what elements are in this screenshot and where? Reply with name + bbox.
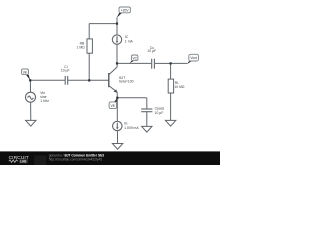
svg-text:10 µF: 10 µF	[155, 111, 164, 115]
current source IE	[113, 121, 122, 130]
resistor RB	[87, 39, 92, 53]
wire base right	[68, 79, 109, 81]
svg-text:10 MΩ: 10 MΩ	[174, 85, 185, 89]
resistor RB labels	[77, 42, 86, 50]
wire collector right	[155, 62, 171, 64]
junction collector node	[116, 62, 118, 64]
capacitor Ci labels	[61, 65, 70, 72]
ground under IE	[112, 144, 122, 150]
capacitor Co labels	[147, 46, 156, 53]
node VC flag	[130, 61, 134, 64]
ground under Vin	[26, 120, 36, 126]
wire to Vout	[171, 62, 188, 64]
svg-text:Vout: Vout	[190, 56, 196, 60]
ground under Cpass	[142, 126, 152, 132]
footer CircuitLab logo	[9, 155, 29, 164]
junction RL node	[170, 62, 172, 64]
wire RB bottom	[88, 53, 90, 80]
svg-text:10 µF: 10 µF	[147, 49, 156, 53]
capacitor Co	[152, 59, 155, 69]
wire IC top	[116, 18, 118, 35]
svg-text:Vin: Vin	[23, 70, 28, 74]
current source IC	[112, 35, 121, 44]
svg-text:VE: VE	[111, 104, 115, 108]
capacitor Cpass	[141, 109, 152, 112]
wire Vin top	[29, 80, 31, 92]
transistor Q1 BJT	[108, 73, 110, 87]
node Vin flag	[26, 75, 30, 81]
svg-text:LAB: LAB	[20, 160, 27, 164]
wire Cpass top	[146, 98, 148, 109]
junction at top rail	[116, 23, 118, 25]
node +20V flag	[117, 13, 123, 18]
svg-text:1 MΩ: 1 MΩ	[77, 46, 86, 50]
wire IE top	[116, 98, 118, 121]
resistor RL labels	[174, 81, 185, 89]
wire IE bottom	[116, 131, 118, 144]
current source IC labels	[125, 35, 134, 43]
ground under RL	[165, 120, 175, 126]
svg-text:http://circuitlab.com/c/mk4cd4: http://circuitlab.com/c/mk4cd4452fy45	[49, 158, 103, 162]
wire RL top	[170, 63, 172, 79]
resistor RL	[168, 79, 173, 93]
wire RL bottom	[170, 93, 172, 120]
svg-text:1 kHz: 1 kHz	[40, 99, 49, 103]
wire Vin bottom	[30, 102, 32, 120]
svg-text:VC: VC	[132, 56, 137, 60]
current source IE labels	[124, 122, 139, 130]
footer dark panel	[34, 155, 46, 165]
capacitor Ci	[65, 76, 68, 85]
node Vout flag	[187, 61, 191, 64]
svg-text:Cpass: Cpass	[155, 107, 165, 111]
wire IC bottom	[116, 44, 118, 63]
junction emitter node	[116, 97, 118, 99]
wire emitter horizontal	[117, 97, 147, 99]
svg-text:1.009 mA: 1.009 mA	[124, 126, 139, 130]
wire Cpass bottom	[146, 112, 148, 127]
wire top rail	[89, 23, 117, 25]
wire RB top	[88, 24, 90, 39]
node VE flag	[114, 98, 118, 102]
voltage source Vin	[26, 92, 36, 102]
svg-text:beta=100: beta=100	[119, 79, 133, 83]
wire collector left	[117, 62, 151, 64]
svg-text:10 µF: 10 µF	[61, 69, 70, 73]
transistor Q1 labels	[119, 76, 133, 83]
junction Vin base	[29, 79, 31, 81]
voltage source Vin labels	[40, 91, 49, 103]
wire base left	[30, 79, 65, 81]
svg-text:1 mA: 1 mA	[125, 39, 134, 43]
junction RB base	[88, 79, 90, 81]
svg-text:+20V: +20V	[121, 8, 129, 12]
capacitor Cpass labels	[155, 107, 165, 115]
footer bar	[0, 151, 220, 165]
